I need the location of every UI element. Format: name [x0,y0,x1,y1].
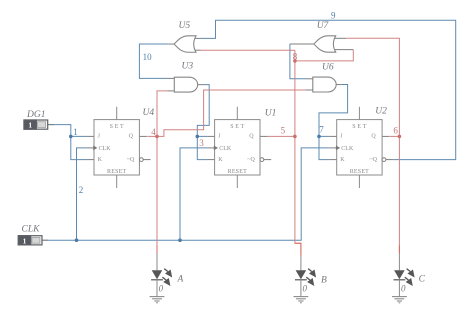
svg-text:9: 9 [331,11,336,21]
wire to U2.K [319,136,329,159]
svg-text:8: 8 [293,51,298,61]
wire CLK bus [42,148,329,240]
junction node 3 [196,135,200,139]
wire U5 output stub [168,43,174,45]
svg-text:7: 7 [319,124,324,134]
ground under LED A [150,297,165,303]
junction node 4 [155,135,159,139]
wire LED B lead [300,256,302,270]
or-gate U5 [174,36,196,52]
wire net9 U2.~Q to U5.A [200,20,455,159]
wire U7 output stub [290,43,314,45]
svg-text:U2: U2 [375,107,387,117]
JK flip-flop U2 [329,107,393,188]
svg-text:DG1: DG1 [26,110,45,120]
junction node 6 [398,135,402,139]
JK flip-flop U4 [87,107,151,188]
wire net5 U1.Q [268,135,295,137]
wire net6 LED C tip [398,246,400,254]
wire U7.out to U6.A [290,44,306,79]
svg-text:U7: U7 [317,21,330,31]
and-gate U3 [174,77,197,92]
svg-text:U6: U6 [322,62,334,72]
JK flip-flop U1 [207,107,271,188]
svg-text:CLK: CLK [22,225,41,235]
svg-text:A: A [177,275,184,285]
LED C [394,269,415,297]
wire U5 input stubs [194,37,201,39]
wire net8 to U7.B [295,50,353,61]
wire net6 up to U7.A [346,38,399,136]
svg-text:1: 1 [73,127,78,137]
wire net4 jog to U6.B [157,90,306,136]
ground under LED C [392,297,407,303]
junction node 5 [293,135,297,139]
svg-text:U5: U5 [179,21,191,31]
wire U6 input stubs [306,78,313,80]
wire U1.CLK down [180,148,207,240]
wire U6 output stub [336,84,342,86]
svg-text:2: 2 [79,185,84,195]
wire CLK output stub [42,239,48,241]
junction node 8 [293,59,297,63]
wire net10 U5.out to U3.A [139,44,168,78]
wire U6.out to U2.J [319,85,348,137]
wire LED C lead [398,253,400,270]
wire net2 U4.CLK down [77,148,87,240]
svg-text:U4: U4 [143,108,155,118]
wire net1 to U4.K [71,136,87,159]
svg-text:4: 4 [151,127,156,137]
wire net4 down to LED A [156,136,158,253]
ground under LED B [294,297,309,303]
wire U3 output stub [198,84,204,86]
and-gate U6 [313,77,336,92]
wire net3 U3.out to U1.J [197,85,209,137]
svg-text:5: 5 [281,126,286,136]
junction CLK-U4 [75,238,79,242]
wire net8 to U5.B [200,49,295,51]
svg-text:3: 3 [199,138,204,148]
svg-text:U3: U3 [182,62,194,72]
clock source CLK [18,236,42,246]
wire net4 LED A tip [156,246,158,254]
LED B [295,269,316,297]
svg-text:B: B [321,276,327,286]
wire net4 U4.Q [147,135,157,137]
svg-text:10: 10 [143,52,153,62]
wire net6 down to LED C [398,136,400,253]
junction CLK-U1 [178,238,182,242]
or-gate U7 [314,36,336,52]
svg-text:6: 6 [393,125,398,135]
junction node 7 [317,135,321,139]
digital constant DG1 [24,120,48,130]
wire U3 input stubs [168,77,175,79]
svg-text:C: C [419,275,426,285]
junction node 1 [69,135,73,139]
wire DG1 output stub [48,124,54,126]
wire net4 up to U3.B [157,91,168,136]
svg-text:U1: U1 [265,109,277,119]
wire net1 DG1 to U4.J [48,125,87,137]
wire LED B tip [295,243,301,256]
wire U7 input stubs [334,37,346,39]
wire net6 U2.Q [390,135,400,137]
wire net3 to U1.K [197,136,207,159]
wire LED A lead [156,253,158,270]
LED A [151,269,172,297]
wire net5/8 vertical [295,50,301,256]
